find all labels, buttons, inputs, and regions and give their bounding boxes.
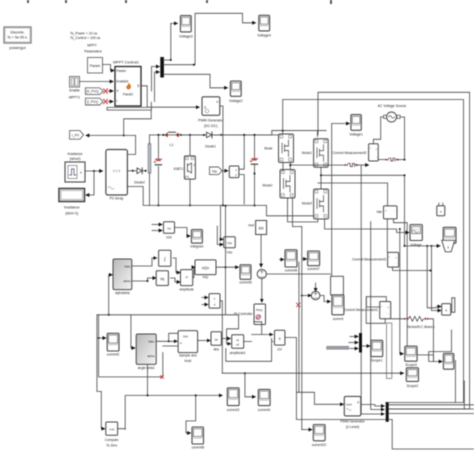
wire mux1 in b bbox=[349, 342, 358, 344]
wire X out lower branch bbox=[296, 392, 392, 419]
constant Vref 300 bbox=[248, 221, 267, 235]
block integrator bbox=[159, 250, 171, 266]
svg-text:Mode: Mode bbox=[264, 147, 272, 151]
wire into I_PV from right bbox=[86, 134, 136, 136]
svg-text:PV Array: PV Array bbox=[110, 197, 124, 201]
junction node bbox=[282, 130, 284, 132]
wire alphabeta to integrator bbox=[132, 258, 157, 266]
svg-text:Integral1: Integral1 bbox=[190, 245, 203, 249]
scope current10 bbox=[312, 425, 326, 448]
junction node bbox=[93, 170, 95, 172]
wire pulses up bbox=[239, 166, 244, 169]
svg-text:PI(s): PI(s) bbox=[256, 308, 262, 312]
svg-text:L1: L1 bbox=[170, 143, 174, 147]
wire into K a bbox=[436, 306, 441, 308]
wire into amplitude1 b bbox=[227, 315, 239, 344]
svg-text:(2-Level): (2-Level) bbox=[346, 425, 359, 429]
series RLC branch right bbox=[385, 158, 404, 161]
svg-text:PID: PID bbox=[203, 276, 209, 280]
scope current6 bbox=[285, 250, 298, 273]
wire alphabeta1 bottom drop bbox=[147, 364, 149, 395]
wire into K b bbox=[436, 310, 441, 312]
subsystem PWM Generator 2-Level bbox=[340, 396, 365, 429]
svg-text:amplitude1: amplitude1 bbox=[230, 351, 246, 355]
wire right leg mid bbox=[321, 167, 405, 189]
scope Voltage2 bbox=[229, 81, 243, 103]
svg-text:Vab: Vab bbox=[376, 210, 382, 214]
wire into Voltage1 bbox=[332, 124, 350, 153]
sum block 1 bbox=[311, 291, 320, 300]
wire sum1 out bbox=[320, 296, 331, 302]
svg-text:P: P bbox=[216, 100, 218, 104]
irradiance signal block bbox=[65, 152, 85, 182]
red mark junction bbox=[161, 376, 164, 379]
svg-text:Compare: Compare bbox=[105, 438, 119, 442]
svg-text:-: - bbox=[396, 263, 397, 266]
svg-text:current8: current8 bbox=[192, 446, 205, 450]
junction node bbox=[430, 270, 432, 272]
scope Voltage1 bbox=[349, 115, 363, 137]
junction node bbox=[193, 64, 195, 66]
wire top rail left segment bbox=[153, 134, 204, 136]
svg-text:Ts_Power = 10 us.: Ts_Power = 10 us. bbox=[70, 32, 98, 36]
wire mux1 in a bbox=[350, 336, 358, 338]
junction node bbox=[404, 159, 406, 161]
flame icon in MPPT bbox=[127, 84, 131, 90]
svg-text:Uref: Uref bbox=[346, 403, 352, 407]
svg-text:current2: current2 bbox=[107, 353, 120, 357]
wire enable to MPPT bbox=[80, 81, 114, 83]
wire rail to IGBT bbox=[189, 135, 191, 156]
wire sum out right bbox=[266, 273, 330, 275]
capacitor C2 bbox=[250, 159, 258, 207]
svg-text:powergui: powergui bbox=[9, 45, 25, 50]
wire V_PV1 to MPPT V port bbox=[108, 90, 114, 92]
goto tag Vsc bbox=[210, 167, 223, 175]
wire into minmux a bbox=[202, 297, 208, 299]
junction node bbox=[404, 245, 406, 247]
caption fragment dots bbox=[27, 0, 332, 4]
svg-text:Enabled: Enabled bbox=[117, 80, 129, 84]
svg-text:current4: current4 bbox=[258, 408, 271, 412]
red mark on wire bbox=[297, 303, 301, 307]
wire CM3 bottom to vertical bbox=[393, 267, 431, 270]
scope Scope3 bbox=[405, 346, 417, 367]
wire amplitude to PID bbox=[193, 267, 195, 277]
from tag I_PV bbox=[70, 131, 84, 140]
junction node bbox=[254, 134, 256, 136]
constant block Param bbox=[88, 58, 103, 74]
svg-text:AC Voltage Source: AC Voltage Source bbox=[378, 104, 407, 108]
junction node bbox=[168, 340, 170, 342]
wire amplitude1 loop bbox=[226, 338, 273, 361]
from tag V_PV1 bbox=[85, 88, 103, 95]
scope current4 bbox=[258, 389, 271, 412]
mosfet Mode bbox=[264, 134, 293, 163]
svg-text:Discrete,: Discrete, bbox=[10, 31, 24, 35]
svg-text:-: - bbox=[395, 210, 396, 213]
wire into current7 bbox=[302, 258, 306, 260]
svg-text:(W/m2): (W/m2) bbox=[69, 157, 80, 161]
wire mux to Voltage3 bbox=[163, 23, 177, 60]
block abc meas small bbox=[437, 203, 445, 216]
wire into Vdc b bbox=[217, 226, 223, 245]
wire into X a bbox=[252, 322, 273, 335]
svg-text:Vd1: Vd1 bbox=[166, 236, 172, 240]
svg-text:Ir: Ir bbox=[80, 171, 82, 175]
subsystem PWM Generator DC-DC bbox=[198, 97, 224, 128]
svg-text:alpha: alpha bbox=[123, 279, 130, 283]
scope Voltage right bbox=[410, 225, 422, 247]
wire into current4 bbox=[220, 301, 255, 397]
block product X bbox=[275, 330, 285, 351]
sum block bbox=[257, 269, 266, 278]
bus mux2 bbox=[386, 402, 389, 422]
junction node bbox=[162, 134, 164, 136]
svg-text:PI Controller: PI Controller bbox=[234, 312, 253, 316]
junction node bbox=[399, 228, 401, 230]
svg-text:Current Measurement3: Current Measurement3 bbox=[352, 257, 386, 261]
red cross on V wire bbox=[104, 89, 108, 94]
junction node bbox=[189, 134, 191, 136]
wire PID to current5 bbox=[216, 266, 239, 268]
svg-text:alpha: alpha bbox=[147, 354, 154, 358]
junction node bbox=[224, 266, 226, 268]
junction node bbox=[431, 245, 433, 247]
svg-text:Scope1: Scope1 bbox=[371, 359, 383, 363]
scope current2 bbox=[107, 333, 120, 356]
wire mux to Voltage4 bbox=[163, 13, 255, 64]
wire vertical mid drop bbox=[331, 152, 333, 276]
enable block bbox=[69, 77, 80, 100]
wire branch to display bbox=[86, 171, 94, 195]
series RLC branch1 bbox=[344, 164, 368, 167]
block amplitude1 bbox=[230, 335, 246, 355]
svg-text:Parameters: Parameters bbox=[84, 50, 102, 54]
junction node bbox=[132, 170, 134, 172]
svg-text:x: x bbox=[445, 309, 447, 313]
svg-text:Vd: Vd bbox=[167, 227, 171, 231]
wire alphabeta1 to sample bbox=[156, 340, 177, 342]
transistor IGBT1 bbox=[174, 156, 196, 179]
wire MPPT D output to PWM generator bbox=[141, 86, 199, 107]
svg-text:IGBT1: IGBT1 bbox=[174, 167, 184, 171]
wire irradiance to PV array bbox=[85, 170, 103, 172]
block Vab measurement bbox=[376, 206, 407, 352]
block Vld bbox=[164, 222, 175, 240]
svg-text:Ts = 5e-05 s.: Ts = 5e-05 s. bbox=[7, 36, 28, 40]
wire PV m port feedback bbox=[124, 110, 152, 154]
wire double vertical right bbox=[427, 246, 436, 311]
junction node bbox=[320, 174, 322, 176]
svg-text:Diode2: Diode2 bbox=[134, 181, 145, 185]
wire into Vdc a bbox=[221, 205, 224, 239]
svg-text:dq: dq bbox=[160, 277, 164, 281]
block alphabeta bbox=[113, 259, 132, 295]
mosfet Mode1 bbox=[302, 139, 328, 168]
subsystem PV Array bbox=[106, 150, 128, 201]
wire sum1 left input bbox=[302, 295, 311, 297]
wire into current6 bbox=[280, 259, 284, 261]
wire abs to amplitude1 bbox=[221, 338, 230, 340]
scope rms combo bbox=[442, 227, 456, 252]
wire into current3 bbox=[125, 395, 222, 429]
wire mux input1 bbox=[152, 67, 160, 92]
wire PV plus to diode2 bbox=[127, 170, 136, 172]
svg-text:Mode1: Mode1 bbox=[302, 151, 312, 155]
svg-text:[I_PV1]: [I_PV1] bbox=[87, 100, 98, 104]
annotation text MPPT parameters bbox=[70, 32, 102, 54]
vertical bus rectangle bbox=[387, 323, 392, 379]
svg-text:Ts_Control = 100 us: Ts_Control = 100 us bbox=[70, 36, 101, 40]
svg-text:Abs: Abs bbox=[213, 348, 219, 352]
scope Voltage4 bbox=[257, 15, 271, 37]
wire into RLC2 left bbox=[391, 319, 434, 362]
wire I_PV1 to MPPT I port bbox=[108, 101, 114, 103]
wire top rail mid segment bbox=[179, 131, 327, 135]
svg-text:Vabc: Vabc bbox=[148, 340, 155, 344]
svg-text:(W/m^2): (W/m^2) bbox=[65, 212, 78, 216]
svg-text:Current Measurement2: Current Measurement2 bbox=[333, 151, 367, 155]
scope Scope2 bbox=[406, 368, 418, 388]
block dq transform bbox=[156, 271, 168, 286]
svg-text:Voltage3: Voltage3 bbox=[179, 35, 193, 39]
wire left leg bottom bbox=[288, 198, 318, 226]
junction node bbox=[289, 164, 291, 166]
wire CM2 up to AC source bbox=[373, 117, 384, 144]
wire into Voltage scope bbox=[325, 219, 409, 232]
scope current8 bbox=[192, 427, 205, 450]
junction node bbox=[404, 174, 406, 176]
inductor L1 bbox=[165, 132, 182, 147]
bus creator mux bbox=[161, 58, 164, 78]
wire long control feed bbox=[97, 315, 239, 429]
svg-text:S/H: S/H bbox=[183, 335, 188, 339]
wire pulses down bbox=[239, 175, 244, 205]
wire branch up to alphabeta bbox=[109, 275, 113, 315]
wire into alphabeta1 bbox=[131, 315, 135, 348]
bus mux1 bbox=[359, 333, 362, 353]
wire into current2 bbox=[99, 337, 106, 339]
compare to zero block bbox=[105, 422, 119, 448]
svg-text:Vabc: Vabc bbox=[124, 265, 131, 269]
display irradiance bbox=[59, 189, 85, 216]
svg-text:I: I bbox=[117, 99, 118, 103]
from tag I_PV1 bbox=[85, 98, 103, 105]
svg-text:u1: u1 bbox=[236, 338, 239, 342]
wire rail right of diode1 bbox=[212, 135, 279, 206]
wire into Vld b bbox=[152, 230, 162, 232]
svg-text:Vdc: Vdc bbox=[227, 251, 233, 255]
svg-text:Voltage1: Voltage1 bbox=[349, 132, 363, 136]
block Vdc bbox=[224, 237, 236, 255]
diode Diode2 bbox=[134, 168, 146, 185]
wire sample to abs bbox=[198, 340, 211, 342]
block min mux bbox=[209, 294, 220, 309]
block PID bbox=[195, 260, 216, 280]
svg-text:Mode3: Mode3 bbox=[302, 202, 312, 206]
wire CM1 loop bbox=[366, 297, 386, 324]
wire mux1 to Scope1 bbox=[362, 345, 370, 347]
scope Integral1 bbox=[190, 230, 203, 249]
subsystem MPPT Control1 bbox=[113, 61, 141, 107]
junction node bbox=[108, 314, 110, 316]
svg-text:P: P bbox=[357, 401, 359, 405]
wire mux1 in c bbox=[350, 348, 358, 350]
svg-text:To Zero: To Zero bbox=[106, 444, 117, 448]
wire X out to PWM bbox=[285, 338, 344, 405]
junction node bbox=[195, 394, 197, 396]
svg-text:Irradiance: Irradiance bbox=[67, 152, 82, 156]
block current measurement2 bbox=[333, 144, 379, 161]
svg-text:MPPT Control1: MPPT Control1 bbox=[113, 61, 139, 65]
svg-text:alphabeta: alphabeta bbox=[115, 291, 130, 295]
junction node bbox=[222, 204, 224, 206]
wire into current10 bbox=[302, 429, 312, 431]
scope Voltage3 bbox=[179, 16, 193, 39]
junction node bbox=[426, 245, 428, 247]
svg-text:C: C bbox=[194, 163, 196, 167]
svg-text:-: - bbox=[388, 313, 389, 316]
wire Vld to Integral1 bbox=[175, 228, 191, 237]
svg-text:current7: current7 bbox=[307, 267, 320, 271]
mosfet Mode3 bbox=[302, 189, 329, 219]
svg-text:current10: current10 bbox=[312, 443, 326, 447]
svg-text:current3: current3 bbox=[227, 408, 240, 412]
svg-text:u²: u² bbox=[185, 275, 188, 279]
wire mux2 in c bbox=[361, 165, 384, 414]
svg-text:x: x bbox=[447, 246, 449, 250]
svg-text:current: current bbox=[333, 317, 344, 321]
wire IGBT to bottom rail bbox=[189, 179, 191, 205]
wire into Vld a bbox=[152, 224, 162, 226]
wire PWM out down bbox=[220, 106, 223, 135]
svg-text:I_PV: I_PV bbox=[72, 133, 80, 137]
svg-text:Vsc: Vsc bbox=[212, 169, 218, 173]
wire left gate riser bbox=[283, 100, 464, 403]
powergui block bbox=[4, 27, 31, 50]
wire PWM2 to mux2 bbox=[361, 405, 385, 407]
junction node bbox=[243, 134, 245, 136]
svg-text:-: - bbox=[376, 156, 377, 159]
svg-text:[V_PV1]: [V_PV1] bbox=[86, 90, 98, 94]
svg-text:amplitude: amplitude bbox=[179, 288, 193, 292]
junction node bbox=[123, 134, 125, 136]
wire frame bottom right closure bbox=[455, 360, 464, 409]
wire mux2 in b bbox=[371, 222, 385, 410]
mosfet Mode2 bbox=[262, 170, 295, 199]
block current measurement1 bbox=[344, 302, 391, 319]
wire into Scope2 bbox=[222, 372, 403, 374]
svg-text:MPPT: MPPT bbox=[87, 44, 96, 48]
wire left leg mid bbox=[283, 162, 345, 171]
scope current5 bbox=[239, 265, 252, 285]
block sample and hold bbox=[178, 331, 198, 363]
svg-text:PandO: PandO bbox=[123, 93, 133, 97]
svg-text:Sample and: Sample and bbox=[179, 354, 197, 358]
wire compare out bbox=[118, 428, 126, 431]
svg-text:Param: Param bbox=[117, 69, 127, 73]
wire mux2 outputs bbox=[389, 405, 474, 414]
scope Scope1 bbox=[371, 340, 383, 362]
rate transition gray bar bbox=[327, 346, 349, 349]
block amplitude bbox=[179, 270, 193, 292]
wire bottom frame bbox=[392, 420, 474, 449]
svg-text:Param: Param bbox=[90, 64, 101, 68]
wire loop under MPPT bbox=[107, 102, 151, 110]
junction node bbox=[203, 134, 205, 136]
wire right vertical drop bbox=[404, 175, 406, 246]
svg-text:Scope2: Scope2 bbox=[407, 384, 419, 388]
gain K block bbox=[442, 298, 455, 315]
wire into amplitude a bbox=[173, 258, 180, 273]
wire bridge top bar bbox=[272, 131, 326, 137]
svg-text:Diode1: Diode1 bbox=[205, 145, 216, 149]
svg-text:|u|: |u| bbox=[215, 338, 218, 342]
svg-text:(DC-DC): (DC-DC) bbox=[204, 124, 218, 128]
svg-text:e(t)u: e(t)u bbox=[202, 266, 209, 270]
svg-text:Mode2: Mode2 bbox=[262, 184, 272, 188]
bus bar gray bbox=[148, 144, 151, 173]
wire drop to Scope3 bbox=[400, 229, 404, 354]
svg-text:PWM Generator: PWM Generator bbox=[340, 420, 365, 424]
svg-text:UV: UV bbox=[277, 348, 282, 352]
svg-text:angle beta1: angle beta1 bbox=[138, 366, 155, 370]
svg-text:==0: ==0 bbox=[109, 428, 115, 432]
svg-text:current6: current6 bbox=[285, 269, 298, 273]
wire sum to PI bbox=[261, 279, 263, 303]
junction node bbox=[170, 59, 172, 61]
wire alphabeta to dq bbox=[132, 278, 156, 281]
svg-text:Scope3: Scope3 bbox=[405, 363, 417, 367]
svg-text:Vdc: Vdc bbox=[227, 241, 233, 245]
diode Diode1 bbox=[205, 132, 222, 149]
wire into amplitude b bbox=[171, 278, 181, 282]
series RLC branch2 resistor bbox=[404, 316, 435, 328]
junction node bbox=[244, 372, 246, 374]
block Abs bbox=[211, 332, 221, 352]
svg-text:current5: current5 bbox=[239, 281, 252, 285]
wire into minmux b bbox=[202, 206, 226, 315]
wire CM2 right to RLC bbox=[378, 159, 385, 161]
red cross on I wire bbox=[104, 99, 108, 104]
wire Vsc to pulses block bbox=[222, 170, 227, 172]
AC voltage source bbox=[378, 104, 407, 158]
svg-text:SeriesRLC Branch: SeriesRLC Branch bbox=[407, 325, 434, 329]
svg-text:Enable: Enable bbox=[69, 89, 80, 93]
wire mux input2 bbox=[155, 72, 160, 102]
svg-text:Irradiance: Irradiance bbox=[64, 206, 80, 210]
wire double vertical mid bbox=[299, 227, 302, 430]
scope current3 bbox=[227, 388, 240, 412]
scope unlabeled bbox=[443, 353, 453, 369]
wire feed to rms combo bbox=[405, 245, 441, 247]
svg-text:u2: u2 bbox=[236, 343, 239, 347]
svg-text:300: 300 bbox=[258, 227, 264, 231]
subsystem pulse splitter bbox=[229, 166, 239, 178]
svg-text:? ? ?: ? ? ? bbox=[113, 170, 121, 174]
wire Vref to sum bbox=[260, 235, 262, 268]
block PI Controller bbox=[234, 304, 265, 325]
wire into current8 bbox=[186, 395, 196, 433]
wire sum1 in top bbox=[315, 283, 317, 291]
wire sample feedback bbox=[99, 315, 178, 377]
wire into unlabeled scope bbox=[417, 330, 451, 362]
junction node bbox=[147, 394, 149, 396]
scope current7 bbox=[307, 251, 320, 271]
junction node bbox=[189, 204, 191, 206]
svg-text:Voltage2: Voltage2 bbox=[229, 99, 243, 103]
